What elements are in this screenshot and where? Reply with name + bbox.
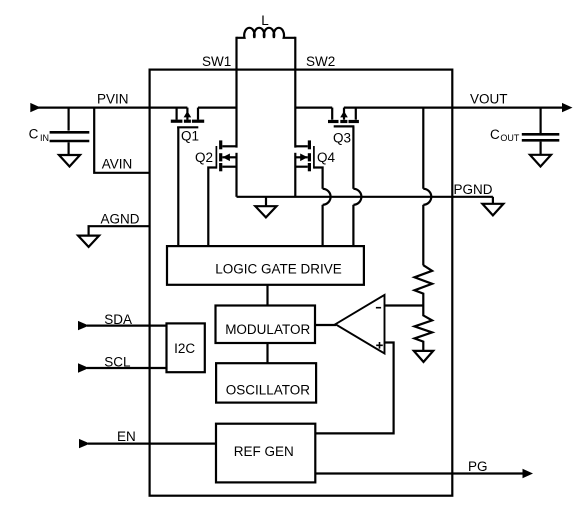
svg-text:SCL: SCL xyxy=(104,354,131,369)
svg-text:Q1: Q1 xyxy=(181,128,199,143)
svg-text:Q2: Q2 xyxy=(195,150,213,165)
svg-text:VOUT: VOUT xyxy=(470,92,508,107)
svg-text:SW2: SW2 xyxy=(306,54,335,69)
svg-text:SDA: SDA xyxy=(104,312,132,327)
svg-text:IN: IN xyxy=(40,133,49,143)
svg-text:L: L xyxy=(261,13,269,28)
svg-text:I2C: I2C xyxy=(174,341,195,356)
svg-text:PG: PG xyxy=(468,459,488,474)
svg-text:REF GEN: REF GEN xyxy=(234,444,294,459)
svg-text:PVIN: PVIN xyxy=(97,91,129,106)
svg-text:OUT: OUT xyxy=(500,133,520,143)
svg-text:MODULATOR: MODULATOR xyxy=(225,322,310,337)
svg-text:AVIN: AVIN xyxy=(102,157,133,172)
svg-text:C: C xyxy=(490,127,500,142)
svg-text:AGND: AGND xyxy=(101,212,140,227)
svg-text:EN: EN xyxy=(117,429,136,444)
svg-text:Q3: Q3 xyxy=(333,131,351,146)
svg-text:C: C xyxy=(29,127,39,142)
svg-text:SW1: SW1 xyxy=(202,54,231,69)
svg-text:Q4: Q4 xyxy=(317,150,336,165)
svg-text:PGND: PGND xyxy=(454,182,493,197)
svg-text:LOGIC GATE DRIVE: LOGIC GATE DRIVE xyxy=(215,262,342,277)
svg-text:OSCILLATOR: OSCILLATOR xyxy=(226,382,311,397)
